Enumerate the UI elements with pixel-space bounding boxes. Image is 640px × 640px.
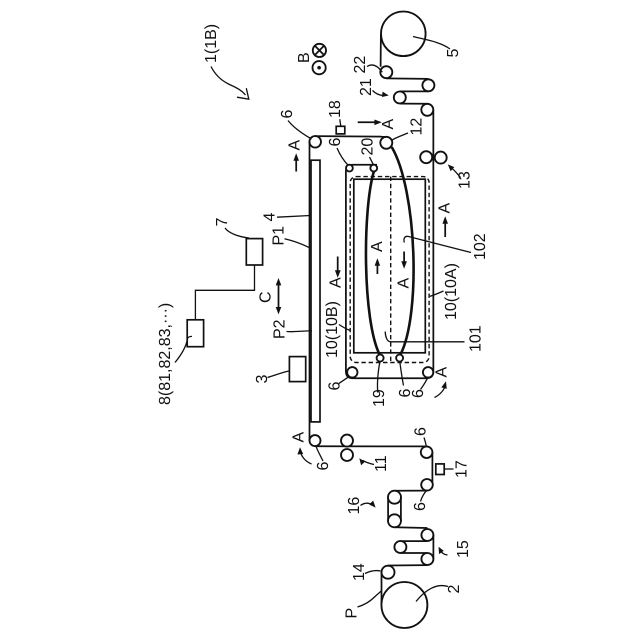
svg-text:22: 22 bbox=[352, 56, 369, 74]
svg-text:16: 16 bbox=[346, 497, 363, 515]
svg-text:11: 11 bbox=[373, 455, 390, 472]
svg-text:A: A bbox=[380, 119, 397, 130]
svg-text:A: A bbox=[287, 140, 304, 151]
svg-text:A: A bbox=[396, 278, 413, 289]
svg-text:6: 6 bbox=[315, 462, 332, 471]
svg-text:17: 17 bbox=[454, 460, 471, 478]
svg-text:7: 7 bbox=[214, 218, 231, 227]
svg-text:A: A bbox=[369, 241, 386, 252]
svg-text:P: P bbox=[344, 608, 361, 619]
svg-text:101: 101 bbox=[468, 325, 485, 352]
svg-text:3: 3 bbox=[254, 375, 271, 384]
svg-text:12: 12 bbox=[409, 118, 426, 136]
svg-text:6: 6 bbox=[327, 138, 344, 147]
svg-text:10(10B): 10(10B) bbox=[324, 301, 341, 358]
svg-text:C: C bbox=[258, 291, 275, 303]
svg-text:P1: P1 bbox=[271, 226, 288, 246]
svg-text:A: A bbox=[291, 432, 308, 443]
svg-text:13: 13 bbox=[457, 171, 474, 189]
svg-text:18: 18 bbox=[327, 100, 344, 118]
svg-text:B: B bbox=[296, 52, 313, 63]
svg-text:6: 6 bbox=[412, 502, 429, 511]
svg-text:6: 6 bbox=[279, 110, 296, 119]
svg-text:15: 15 bbox=[455, 540, 472, 558]
svg-text:4: 4 bbox=[262, 213, 279, 222]
svg-text:A: A bbox=[434, 367, 451, 378]
svg-text:A: A bbox=[437, 203, 454, 214]
svg-text:2: 2 bbox=[446, 585, 463, 594]
svg-text:14: 14 bbox=[351, 563, 368, 581]
svg-text:20: 20 bbox=[360, 138, 377, 156]
svg-text:P2: P2 bbox=[272, 319, 289, 339]
svg-text:6: 6 bbox=[327, 382, 344, 391]
svg-text:5: 5 bbox=[445, 49, 462, 58]
svg-text:6: 6 bbox=[413, 427, 430, 436]
svg-text:19: 19 bbox=[371, 389, 388, 407]
svg-text:1(1B): 1(1B) bbox=[203, 24, 220, 63]
svg-text:8(81,82,83,···): 8(81,82,83,···) bbox=[157, 303, 174, 405]
svg-text:21: 21 bbox=[358, 78, 375, 96]
svg-text:6: 6 bbox=[410, 389, 427, 398]
svg-text:A: A bbox=[328, 277, 345, 288]
svg-text:10(10A): 10(10A) bbox=[443, 263, 460, 320]
svg-text:102: 102 bbox=[472, 233, 489, 260]
